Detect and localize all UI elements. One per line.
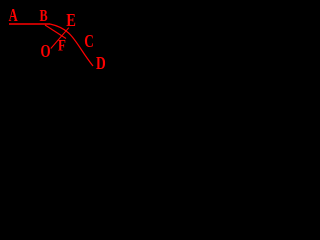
- wire segment O-E: [51, 28, 69, 49]
- node A: [9, 6, 18, 26]
- svg-text:A: A: [9, 6, 18, 26]
- svg-text:O: O: [41, 42, 51, 61]
- svg-text:C: C: [84, 32, 94, 51]
- wire main curve B-C-D: [50, 24, 93, 66]
- node O: [41, 42, 51, 61]
- node F: [58, 38, 66, 55]
- wire line A-B (horizontal surface): [9, 23, 50, 25]
- node C: [84, 32, 94, 51]
- svg-text:D: D: [96, 54, 106, 73]
- svg-text:E: E: [66, 12, 76, 30]
- svg-text:F: F: [58, 38, 66, 55]
- node B: [40, 7, 48, 25]
- node D: [96, 54, 106, 73]
- svg-text:B: B: [40, 7, 48, 25]
- wire chord B-F: [45, 25, 66, 39]
- background: [0, 0, 125, 88]
- node E: [66, 12, 76, 30]
